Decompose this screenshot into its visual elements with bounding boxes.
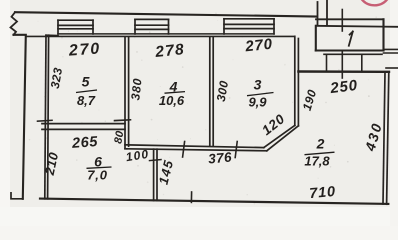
left exterior wall xyxy=(14,35,26,199)
wall room5 left / room6 left (double) xyxy=(45,35,58,199)
svg-text:376: 376 xyxy=(208,149,233,166)
right exterior wall (double) xyxy=(383,72,389,204)
dim ticks at y~120 xyxy=(38,119,53,122)
svg-text:17,8: 17,8 xyxy=(304,154,330,169)
window W3 xyxy=(224,19,274,34)
hallway top wall (double) xyxy=(125,145,267,151)
red mark (partial circle) xyxy=(362,0,388,5)
window W1 xyxy=(58,20,93,34)
svg-text:710: 710 xyxy=(309,184,337,202)
paper noise xyxy=(23,13,377,205)
dimension texts xyxy=(67,36,358,203)
staircase: upper verticals xyxy=(317,2,319,26)
window sill line across piers xyxy=(58,33,274,35)
svg-text:250: 250 xyxy=(328,77,358,97)
wall between room4 and room3 (double) xyxy=(210,37,213,145)
step ticks xyxy=(326,54,328,71)
wall break (zigzag) top-left xyxy=(11,12,18,35)
staircase band lines xyxy=(316,18,384,20)
steps line below box xyxy=(324,53,382,55)
right-edge short walls xyxy=(384,48,398,50)
svg-text:278: 278 xyxy=(154,41,186,61)
window W2 xyxy=(135,19,169,34)
svg-text:80: 80 xyxy=(112,129,126,144)
chamfer wall (double diagonal) xyxy=(264,125,299,150)
wall between room3 and room2 (double) xyxy=(295,36,299,125)
svg-text:9,9: 9,9 xyxy=(248,95,267,110)
exterior top wall, outer line xyxy=(15,12,317,16)
svg-text:5: 5 xyxy=(82,74,90,90)
room2 top wall xyxy=(298,70,389,73)
room number/area labels xyxy=(76,74,335,183)
wall between room5 and room4 (double) xyxy=(125,37,129,149)
svg-text:10,6: 10,6 xyxy=(159,93,185,108)
dim line 250 vertical xyxy=(341,10,343,32)
room6 right wall (double) xyxy=(154,149,157,200)
dim tick on room6 right wall xyxy=(150,160,162,161)
bottom wall tick xyxy=(190,192,192,202)
svg-text:7,0: 7,0 xyxy=(87,168,107,183)
svg-text:3: 3 xyxy=(254,77,262,93)
svg-text:270: 270 xyxy=(67,40,101,59)
bottom exterior wall xyxy=(40,199,388,204)
svg-text:380: 380 xyxy=(128,77,144,101)
svg-text:270: 270 xyxy=(244,36,274,56)
svg-text:2: 2 xyxy=(316,136,325,152)
exterior top wall, inner line xyxy=(26,35,295,37)
left wall end tick xyxy=(11,193,23,199)
svg-text:265: 265 xyxy=(71,134,99,152)
svg-text:8,7: 8,7 xyxy=(77,93,96,108)
hallway wall ticks xyxy=(183,142,185,158)
stair room1 box xyxy=(315,26,317,51)
room1 digit xyxy=(349,32,353,46)
wall between room5 and room6 "265" (double) xyxy=(42,124,125,130)
